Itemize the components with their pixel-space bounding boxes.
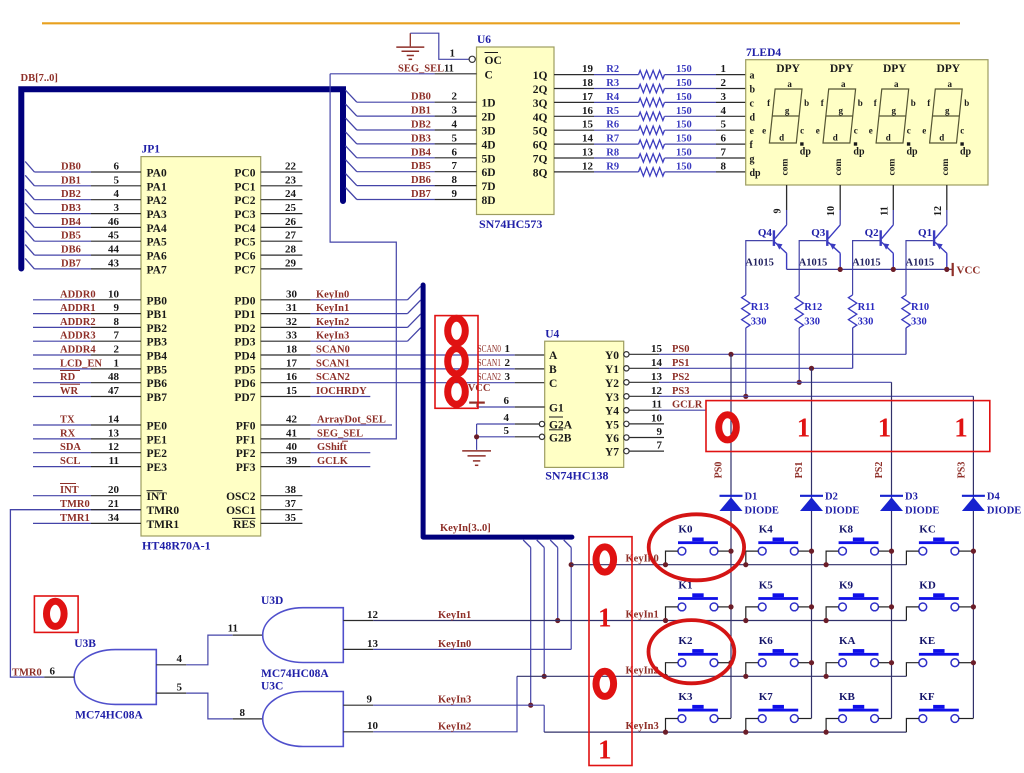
svg-text:PD6: PD6 <box>234 378 255 390</box>
resistor R12 330 <box>795 295 803 328</box>
pin stub OSC1 <box>261 509 303 511</box>
wire KC left leg <box>906 551 919 565</box>
bus DB[7..0] <box>21 89 343 268</box>
svg-text:PB2: PB2 <box>147 323 168 335</box>
svg-text:Q3: Q3 <box>811 227 826 239</box>
annotation digit 0 (scan c) <box>448 379 466 404</box>
svg-text:JP1: JP1 <box>142 144 161 156</box>
svg-text:KeyIn1: KeyIn1 <box>438 610 471 621</box>
bus entry KeyIn0 <box>408 286 421 300</box>
wire KD right leg <box>959 606 974 608</box>
power symbol VCC at U4 <box>468 383 491 407</box>
svg-text:330: 330 <box>858 317 874 328</box>
svg-text:330: 330 <box>751 317 767 328</box>
bus KeyIn[3..0] <box>423 285 572 537</box>
wire DB5 to U6 6D <box>357 171 435 173</box>
svg-text:PF2: PF2 <box>236 448 256 460</box>
wire U3B pin5 to U3C pin8 <box>156 693 262 719</box>
svg-text:DB3: DB3 <box>411 133 431 144</box>
diode D1 <box>720 496 743 511</box>
wire K9 left leg <box>826 607 839 621</box>
svg-text:DB0: DB0 <box>411 92 431 103</box>
resistor R13 330 <box>742 295 750 328</box>
junction K9 row <box>824 618 829 623</box>
svg-text:K8: K8 <box>839 524 854 536</box>
wire R3 to display pin 2 <box>665 88 716 90</box>
svg-text:VCC: VCC <box>468 383 491 394</box>
wire TX to JP1 PE0 <box>33 424 91 426</box>
svg-text:DIODE: DIODE <box>745 506 779 517</box>
svg-text:43: 43 <box>108 257 120 269</box>
svg-text:U3C: U3C <box>261 681 283 693</box>
svg-text:45: 45 <box>108 230 120 242</box>
svg-text:7: 7 <box>452 160 458 172</box>
svg-text:10: 10 <box>367 720 379 732</box>
svg-text:12: 12 <box>933 206 944 216</box>
svg-text:33: 33 <box>286 330 298 342</box>
svg-text:c: c <box>854 126 858 136</box>
wire K3 left leg <box>666 719 679 733</box>
svg-text:HT48R70A-1: HT48R70A-1 <box>142 539 211 553</box>
wire Q3 base to R12 <box>799 241 826 295</box>
svg-text:DB6: DB6 <box>411 175 431 186</box>
svg-text:a: a <box>787 79 792 89</box>
svg-text:PS0: PS0 <box>714 462 725 479</box>
svg-text:11: 11 <box>444 64 454 75</box>
svg-text:c: c <box>907 126 911 136</box>
svg-text:SN74HC138: SN74HC138 <box>545 469 608 483</box>
svg-text:150: 150 <box>676 78 692 89</box>
pin name OC <box>485 53 502 68</box>
svg-text:5: 5 <box>452 132 458 144</box>
svg-text:b: b <box>750 85 756 96</box>
net label SEG_SEL11 <box>398 64 454 75</box>
wire ADDR1 to JP1 PB1 <box>33 313 91 315</box>
junction R12-PS2 <box>797 380 802 385</box>
svg-text:DB7: DB7 <box>61 258 81 269</box>
wire KA left leg <box>826 663 839 677</box>
svg-text:1: 1 <box>878 413 892 443</box>
svg-text:13: 13 <box>651 371 663 383</box>
wire WR to JP1 PB7 <box>33 396 91 398</box>
wire Q1 base to R10 <box>906 241 933 295</box>
svg-text:1: 1 <box>797 413 811 443</box>
svg-text:KeyIn2: KeyIn2 <box>316 317 349 328</box>
svg-text:11: 11 <box>652 399 662 411</box>
transistor Q1 A1015 <box>933 225 947 270</box>
svg-text:GCLK: GCLK <box>317 456 349 467</box>
svg-text:DB1: DB1 <box>411 106 431 117</box>
resistor R9 150 <box>639 168 665 176</box>
svg-text:KeyIn3: KeyIn3 <box>438 695 471 706</box>
svg-text:g: g <box>750 154 755 165</box>
wire DB6 to U6 7D <box>357 185 435 187</box>
svg-text:18: 18 <box>286 344 298 356</box>
svg-text:DPY: DPY <box>776 63 800 75</box>
svg-text:GShift: GShift <box>317 442 347 453</box>
svg-text:KeyIn1: KeyIn1 <box>316 303 349 314</box>
svg-text:PS3: PS3 <box>957 462 968 479</box>
svg-text:8: 8 <box>114 316 120 328</box>
wire KeyIn2 from U3C pin10 <box>343 731 373 733</box>
svg-text:ArrayDot_SEL: ArrayDot_SEL <box>317 415 386 426</box>
svg-text:13: 13 <box>108 427 120 439</box>
bus entry DB0 at U6 <box>346 90 357 102</box>
svg-text:1: 1 <box>114 357 120 369</box>
wire R11 to PS1 <box>852 328 854 368</box>
wire K2 left leg <box>666 663 679 677</box>
key K5 <box>758 579 798 610</box>
svg-text:SCAN0: SCAN0 <box>316 345 350 356</box>
svg-text:dp: dp <box>750 168 762 179</box>
svg-text:K2: K2 <box>678 635 693 647</box>
svg-text:D4: D4 <box>987 492 1001 503</box>
svg-text:Y4: Y4 <box>605 406 619 418</box>
pin name RES <box>232 518 256 531</box>
key K7 <box>758 691 798 722</box>
svg-text:C: C <box>549 378 557 390</box>
wire keypad row2 <box>517 675 906 677</box>
svg-text:VCC: VCC <box>957 265 981 277</box>
svg-text:28: 28 <box>285 244 297 256</box>
wire column 2 <box>811 368 813 718</box>
pin bubble Y5 <box>624 421 629 426</box>
svg-text:TX: TX <box>60 415 75 426</box>
svg-text:9: 9 <box>367 694 373 706</box>
junction Q1 emitter <box>944 267 949 272</box>
ic U6 body <box>477 47 555 215</box>
wire K8 left leg <box>826 551 839 565</box>
svg-text:d: d <box>750 112 756 123</box>
svg-text:e: e <box>869 126 873 136</box>
svg-text:Q2: Q2 <box>865 227 880 239</box>
svg-text:SN74HC573: SN74HC573 <box>479 217 542 231</box>
wire KB right leg <box>879 718 892 720</box>
pin stub PC5 <box>261 240 303 242</box>
svg-text:KeyIn3: KeyIn3 <box>626 721 659 732</box>
svg-text:22: 22 <box>285 161 297 173</box>
svg-text:16: 16 <box>286 371 298 383</box>
svg-text:ADDR0: ADDR0 <box>60 289 96 300</box>
svg-text:6D: 6D <box>482 167 496 179</box>
svg-text:SCAN0: SCAN0 <box>478 344 502 355</box>
wire KeyIn2 stub <box>543 548 545 677</box>
svg-text:OC: OC <box>485 55 502 67</box>
annotation digit 0 (tmr0) <box>47 601 65 626</box>
wire 2Q to resistor R3 <box>554 88 594 90</box>
svg-text:e: e <box>922 126 926 136</box>
svg-text:37: 37 <box>285 498 297 510</box>
svg-text:com: com <box>887 158 897 175</box>
svg-text:U3B: U3B <box>74 638 96 650</box>
pin com1 wire <box>786 185 788 210</box>
resistor R2 150 <box>639 70 665 78</box>
ic JP1 body <box>141 157 261 536</box>
wire KA right leg <box>879 662 892 664</box>
key K2 <box>678 635 718 666</box>
pin bubble Y2 <box>624 380 629 385</box>
svg-text:g: g <box>785 106 790 116</box>
wire PS3 <box>629 395 659 397</box>
and-gate U3D MC74HC08A <box>263 608 344 663</box>
bus entry DB2 at U6 <box>346 118 357 130</box>
svg-text:4D: 4D <box>482 139 496 151</box>
wire KF right leg <box>959 718 974 720</box>
svg-text:4: 4 <box>177 653 183 665</box>
svg-text:a: a <box>750 71 755 82</box>
svg-text:TMR1: TMR1 <box>147 519 180 531</box>
svg-text:6: 6 <box>114 161 120 173</box>
svg-text:ADDR1: ADDR1 <box>60 303 96 314</box>
svg-text:R9: R9 <box>606 161 619 172</box>
resistor R4 150 <box>639 98 665 106</box>
svg-text:18: 18 <box>582 77 594 89</box>
wire column 3 <box>891 382 893 718</box>
svg-text:DB2: DB2 <box>411 120 431 131</box>
resistor R11 330 <box>848 295 856 328</box>
wire 5Q to resistor R6 <box>554 129 594 131</box>
svg-text:PD7: PD7 <box>234 392 255 404</box>
wire LCD_EN to JP1 PB5 <box>33 368 91 370</box>
svg-text:47: 47 <box>108 385 120 397</box>
svg-text:8Q: 8Q <box>533 167 548 179</box>
svg-text:MC74HC08A: MC74HC08A <box>261 668 329 680</box>
wire G2A <box>515 423 540 425</box>
svg-text:8: 8 <box>721 160 727 172</box>
pin com3 wire <box>892 185 894 210</box>
wire - orange top rule <box>42 22 960 24</box>
wire R4 to display pin 3 <box>665 101 716 103</box>
wire DB3 to JP1 PA3 <box>34 213 91 215</box>
bus entry KeyIn2 bottom <box>537 540 545 548</box>
svg-text:g: g <box>945 106 950 116</box>
wire R7 to display pin 6 <box>665 143 716 145</box>
svg-text:2Q: 2Q <box>533 84 548 96</box>
svg-text:LCD_EN: LCD_EN <box>60 358 102 369</box>
svg-text:ADDR2: ADDR2 <box>60 317 96 328</box>
junction PS1-column2 <box>809 366 814 371</box>
svg-text:1: 1 <box>505 343 511 355</box>
svg-text:com: com <box>834 158 844 175</box>
svg-text:10: 10 <box>108 288 120 300</box>
bus entry DB5 <box>25 231 34 242</box>
svg-text:1: 1 <box>721 63 727 75</box>
svg-text:5D: 5D <box>482 153 496 165</box>
pin stub OSC2 <box>261 495 303 497</box>
junction K9 column <box>889 604 894 609</box>
svg-text:KB: KB <box>839 691 856 703</box>
junction Q3 emitter <box>838 267 843 272</box>
svg-text:OSC2: OSC2 <box>226 491 256 503</box>
junction K2 row <box>663 674 668 679</box>
svg-text:b: b <box>804 98 809 108</box>
svg-text:GCLR: GCLR <box>672 400 703 411</box>
svg-text:PC3: PC3 <box>234 209 255 221</box>
pin stub Y5 <box>629 423 664 425</box>
svg-text:B: B <box>549 364 557 376</box>
svg-text:31: 31 <box>286 302 297 314</box>
svg-text:12: 12 <box>651 385 663 397</box>
annotation digit 0 (scan a) <box>448 318 466 343</box>
pin stub Y6 <box>629 437 664 439</box>
wire keypad row0 <box>571 564 906 566</box>
svg-text:1: 1 <box>598 735 612 765</box>
svg-text:3: 3 <box>114 202 120 214</box>
resistor R10 330 <box>902 295 910 328</box>
svg-text:DB4: DB4 <box>61 217 82 228</box>
svg-text:15: 15 <box>582 119 594 131</box>
svg-text:9: 9 <box>657 426 663 438</box>
junction K7 row <box>743 730 748 735</box>
svg-text:PF3: PF3 <box>236 462 256 474</box>
pin bubble Y4 <box>624 408 629 413</box>
pin bubble Y1 <box>624 366 629 371</box>
wire 6Q to resistor R7 <box>554 143 594 145</box>
svg-text:U4: U4 <box>545 329 559 341</box>
svg-text:PA2: PA2 <box>147 195 167 207</box>
svg-text:PC0: PC0 <box>234 168 255 180</box>
svg-text:39: 39 <box>286 455 298 467</box>
svg-text:150: 150 <box>676 64 692 75</box>
svg-text:17: 17 <box>286 357 298 369</box>
svg-text:330: 330 <box>804 317 820 328</box>
svg-text:D2: D2 <box>825 492 838 503</box>
wire ArrayDot_SEL <box>261 424 311 426</box>
svg-text:SCAN1: SCAN1 <box>316 358 350 369</box>
wire R12 to PS2 <box>798 328 800 382</box>
svg-text:SCAN1: SCAN1 <box>478 358 502 369</box>
svg-text:6: 6 <box>504 395 510 407</box>
annotation ellipse around K0 <box>649 514 744 580</box>
pin com4 wire <box>946 185 948 210</box>
pin stub PC2 <box>261 199 303 201</box>
junction K0 column <box>728 549 733 554</box>
annotation box tmr0 zero <box>34 596 78 632</box>
svg-text:U6: U6 <box>477 34 491 46</box>
svg-text:27: 27 <box>285 230 297 242</box>
annotation box PS values <box>706 401 990 452</box>
svg-text:TMR0: TMR0 <box>147 505 180 517</box>
wire DB0 to JP1 PA0 <box>34 171 91 173</box>
wire SCAN2 JP1 to U4 <box>261 382 545 384</box>
wire K5 left leg <box>746 607 759 621</box>
wire 8Q to resistor R9 <box>554 171 594 173</box>
bus entry DB6 at U6 <box>346 174 357 186</box>
svg-text:Y1: Y1 <box>605 364 619 376</box>
wire K9 right leg <box>879 606 892 608</box>
svg-text:KE: KE <box>919 635 935 647</box>
svg-text:DB0: DB0 <box>61 162 81 173</box>
svg-text:INT: INT <box>60 485 79 496</box>
svg-text:DB4: DB4 <box>411 147 432 158</box>
svg-text:12: 12 <box>367 609 379 621</box>
wire K3 right leg <box>718 718 731 720</box>
wire PS2 <box>629 381 659 383</box>
wire 1Q to resistor R2 <box>554 74 594 76</box>
svg-text:9: 9 <box>452 188 458 200</box>
pin name G2A <box>549 417 573 432</box>
wire Q4 base to R13 <box>746 241 773 295</box>
ic U4 body <box>545 341 624 467</box>
wire 3Q to resistor R4 <box>554 101 594 103</box>
wire K1 right leg <box>718 606 731 608</box>
svg-text:48: 48 <box>108 371 120 383</box>
svg-text:150: 150 <box>676 148 692 159</box>
svg-text:Y3: Y3 <box>605 392 619 404</box>
svg-text:SCAN2: SCAN2 <box>316 372 350 383</box>
wire DB4 to U6 5D <box>357 157 435 159</box>
svg-text:KF: KF <box>919 691 935 703</box>
svg-text:29: 29 <box>285 257 297 269</box>
svg-text:SEG_SEL: SEG_SEL <box>398 64 444 75</box>
bus entry KeyIn3 <box>408 328 421 342</box>
junction KD column <box>971 604 976 609</box>
svg-text:SCL: SCL <box>60 456 80 467</box>
svg-text:TMR1: TMR1 <box>60 513 90 524</box>
wire K0 right leg <box>718 550 731 552</box>
svg-text:PS2: PS2 <box>874 462 885 479</box>
wire GCLR <box>629 409 659 411</box>
svg-text:ADDR3: ADDR3 <box>60 331 96 342</box>
wire KeyIn3 JP1 to bus <box>261 340 311 342</box>
bus entry DB3 <box>25 203 34 214</box>
annotation box scan zeros <box>435 316 478 409</box>
svg-text:PC5: PC5 <box>234 237 255 249</box>
svg-text:6: 6 <box>50 666 56 678</box>
svg-text:Y6: Y6 <box>605 433 619 445</box>
svg-text:K4: K4 <box>759 524 774 536</box>
bus entry KeyIn3 bottom <box>523 540 531 548</box>
resistor R8 150 <box>639 154 665 162</box>
svg-text:K6: K6 <box>759 635 774 647</box>
wire K4 right leg <box>798 550 811 552</box>
bus entry KeyIn2 <box>408 314 421 328</box>
junction KeyIn0-row0 <box>569 562 574 567</box>
svg-text:Y7: Y7 <box>605 447 619 459</box>
7-segment digit DPY3 <box>869 63 918 175</box>
svg-text:TMR0: TMR0 <box>60 499 90 510</box>
svg-text:R12: R12 <box>804 302 822 313</box>
svg-text:c: c <box>960 126 964 136</box>
svg-text:R11: R11 <box>858 302 876 313</box>
pin stub PC6 <box>261 254 303 256</box>
junction K8 column <box>889 549 894 554</box>
svg-text:SCAN2: SCAN2 <box>478 372 502 383</box>
wire VCC to G1 <box>477 406 515 408</box>
svg-text:RX: RX <box>60 428 76 439</box>
pin bubble U6 OC <box>469 56 475 62</box>
wire RD to JP1 PB6 <box>33 382 91 384</box>
wire U3B pin4 to U3D pin11 <box>156 635 262 665</box>
svg-text:PS0: PS0 <box>672 344 690 355</box>
svg-text:7D: 7D <box>482 181 496 193</box>
wire KeyIn0 stub <box>570 548 572 650</box>
svg-text:R2: R2 <box>606 64 619 75</box>
svg-text:DIODE: DIODE <box>825 506 859 517</box>
svg-text:d: d <box>939 133 944 143</box>
svg-text:TMR0: TMR0 <box>12 668 42 679</box>
svg-text:c: c <box>750 98 755 109</box>
svg-text:b: b <box>858 98 863 108</box>
svg-text:PS1: PS1 <box>672 358 690 369</box>
net label WR <box>60 384 80 397</box>
wire KE left leg <box>906 663 919 677</box>
key KC <box>919 524 959 555</box>
wire DB4 to JP1 PA4 <box>34 226 91 228</box>
svg-text:23: 23 <box>285 174 297 186</box>
svg-text:dp: dp <box>960 147 972 158</box>
svg-text:A: A <box>549 350 558 362</box>
